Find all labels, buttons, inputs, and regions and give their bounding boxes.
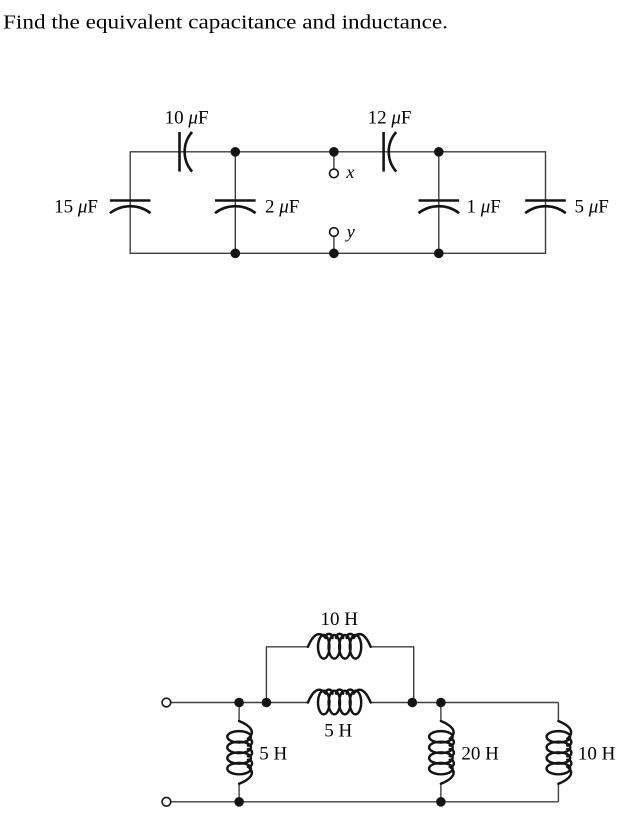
svg-text:2 μF: 2 μF	[265, 196, 299, 217]
svg-text:20 H: 20 H	[461, 744, 499, 765]
svg-text:5 μF: 5 μF	[575, 196, 609, 217]
svg-text:x: x	[345, 162, 354, 182]
svg-text:10 H: 10 H	[578, 744, 616, 765]
svg-text:Find the equivalent capacitanc: Find the equivalent capacitance and indu…	[3, 13, 448, 34]
svg-text:12 μF: 12 μF	[368, 107, 412, 128]
svg-text:10 H: 10 H	[320, 609, 358, 630]
svg-text:5 H: 5 H	[259, 744, 287, 765]
svg-text:10 μF: 10 μF	[165, 107, 209, 128]
svg-text:1 μF: 1 μF	[467, 196, 501, 217]
svg-text:5 H: 5 H	[324, 721, 352, 742]
svg-text:y: y	[345, 221, 355, 241]
svg-text:15 μF: 15 μF	[54, 196, 98, 217]
